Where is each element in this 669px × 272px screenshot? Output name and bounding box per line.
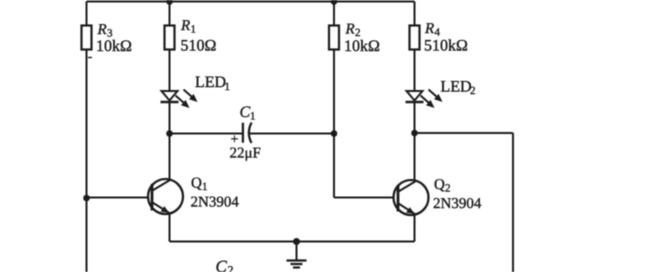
svg-text:2: 2 <box>228 263 234 272</box>
wire LED2 node to right column <box>415 132 514 134</box>
transistor Q2 <box>394 180 429 215</box>
capacitor C1 plates <box>243 123 252 144</box>
svg-text:510kΩ: 510kΩ <box>424 38 468 55</box>
LED1 emission arrow upper <box>184 90 198 103</box>
LED2 emission arrow lower <box>421 96 435 109</box>
svg-text:1: 1 <box>250 111 256 123</box>
wire C1 row left segment <box>170 133 243 135</box>
LED1 diode symbol <box>161 91 179 102</box>
svg-text:LED: LED <box>195 74 226 91</box>
node junction C1 / R2 / Q2 base <box>331 130 338 137</box>
svg-text:R: R <box>97 22 107 38</box>
node junction top rail at R2 <box>331 0 338 5</box>
wire C1 row right segment <box>249 133 334 135</box>
LED1 emission arrow lower <box>176 96 190 109</box>
svg-text:2: 2 <box>445 183 451 195</box>
svg-text:R: R <box>180 18 190 34</box>
stray scan mark below R3 <box>88 57 92 59</box>
ground symbol <box>287 261 307 268</box>
svg-text:R: R <box>345 22 355 38</box>
wire right column down to bottom edge <box>512 133 514 272</box>
resistor R3 body <box>82 26 92 50</box>
svg-text:2N3904: 2N3904 <box>433 196 482 212</box>
svg-text:Q: Q <box>191 176 202 192</box>
svg-text:1: 1 <box>225 81 231 93</box>
LED2 diode symbol <box>406 91 424 102</box>
node junction LED1 / C1 / Q1 collector <box>166 130 173 137</box>
svg-text:22μF: 22μF <box>230 146 261 162</box>
wire Q2 base link <box>334 197 398 199</box>
wire left column through R3 down to bottom edge <box>86 2 88 272</box>
wire bottom emitter rail <box>170 241 415 243</box>
svg-text:2N3904: 2N3904 <box>191 195 240 211</box>
svg-text:10kΩ: 10kΩ <box>96 38 132 55</box>
svg-text:C: C <box>240 104 251 121</box>
resistor R1 body <box>165 26 175 50</box>
wire top supply rail <box>87 1 415 3</box>
wire R1 / LED1 / Q1 collector-emitter column <box>169 2 171 242</box>
svg-text:R: R <box>424 21 434 37</box>
svg-text:510Ω: 510Ω <box>181 38 217 55</box>
svg-text:2: 2 <box>470 85 476 97</box>
svg-text:C: C <box>216 257 228 272</box>
resistor R4 body <box>410 26 420 50</box>
wire R2 column down to Q2 base level <box>333 2 335 198</box>
svg-text:LED: LED <box>441 79 472 96</box>
svg-text:Q: Q <box>434 177 445 193</box>
transistor Q1 <box>148 179 183 214</box>
node junction LED2 / Q2 collector <box>411 130 418 137</box>
node junction top rail at R1 <box>166 0 173 5</box>
LED2 emission arrow upper <box>429 90 443 103</box>
svg-text:1: 1 <box>191 24 197 36</box>
resistor R2 body <box>329 26 339 50</box>
node junction emitter rail / ground <box>293 238 300 245</box>
svg-text:1: 1 <box>202 181 208 193</box>
wire ground stub <box>296 242 298 260</box>
wire Q1 base <box>87 197 153 199</box>
node junction R3 / Q1 base <box>83 195 90 202</box>
wire R4 / LED2 / Q2 collector-emitter column <box>414 2 416 242</box>
svg-text:10kΩ: 10kΩ <box>344 38 380 55</box>
